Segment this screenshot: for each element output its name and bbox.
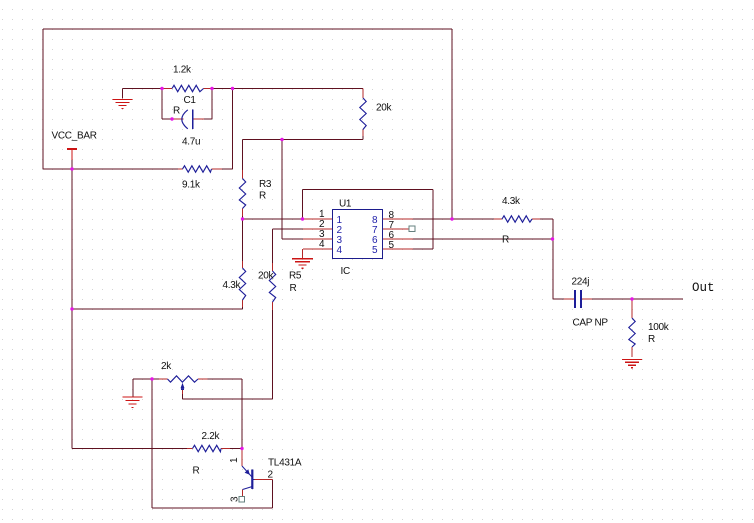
svg-text:20k: 20k bbox=[258, 271, 275, 282]
wire cap row left bbox=[553, 298, 564, 300]
IC U1 box bbox=[333, 210, 383, 259]
pin leads resistor 100k bbox=[631, 299, 633, 357]
pin leads resistor 2.2k bbox=[187, 448, 230, 450]
svg-text:VCC_BAR: VCC_BAR bbox=[52, 131, 97, 142]
svg-text:TL431A: TL431A bbox=[268, 458, 302, 469]
pin lead IC pin4 ground bbox=[302, 249, 304, 258]
resistor 20k top zigzag bbox=[360, 98, 366, 130]
junction pot left bbox=[150, 377, 153, 380]
svg-text:100k: 100k bbox=[648, 322, 670, 333]
svg-text:4.3k: 4.3k bbox=[502, 196, 521, 207]
svg-text:R5: R5 bbox=[289, 271, 302, 282]
pin leads capacitor 224j bbox=[564, 298, 592, 300]
capacitor C1 straight plate bbox=[192, 110, 194, 130]
capacitor 224j plates bbox=[575, 290, 581, 308]
svg-text:R: R bbox=[173, 106, 180, 117]
junction 2.2k right bbox=[240, 447, 243, 450]
wire pin2 net to R5 bbox=[273, 229, 304, 263]
ground 2k pot bbox=[123, 397, 143, 408]
svg-text:20k: 20k bbox=[376, 103, 393, 114]
junction C1 left top bbox=[160, 87, 163, 90]
wire cap row right to Out bbox=[592, 298, 683, 300]
pin leads IC left bbox=[303, 219, 333, 249]
wire pin1 net bbox=[243, 218, 304, 220]
ground top-left bbox=[113, 100, 133, 109]
resistor 1.2k zigzag bbox=[172, 85, 204, 91]
pin leads resistor 1.2k bbox=[162, 88, 212, 90]
wire 4.3k bottom row bbox=[72, 307, 243, 309]
no-connect square TL431 pin3 bbox=[239, 497, 245, 503]
wire 2.2k row bbox=[72, 448, 242, 450]
pin leads potentiometer 2k bbox=[159, 378, 208, 380]
wire vertical x232 up bbox=[232, 89, 234, 170]
resistor 4.3k vertical zigzag bbox=[239, 268, 245, 300]
wire 1.2k to 20k bbox=[212, 88, 363, 90]
potentiometer 2k zigzag bbox=[168, 376, 199, 382]
svg-text:5: 5 bbox=[372, 245, 378, 256]
svg-text:R: R bbox=[290, 283, 297, 294]
capacitor C1 curved plate bbox=[182, 110, 188, 129]
pin leads capacitor C1 bbox=[172, 118, 204, 120]
pin leads IC right bbox=[383, 219, 413, 249]
svg-text:4.3k: 4.3k bbox=[223, 280, 242, 291]
svg-text:3: 3 bbox=[230, 496, 241, 502]
pin leads resistor R3 bbox=[242, 170, 244, 216]
svg-text:R: R bbox=[193, 466, 200, 477]
wire R5 bottom to wiper row bbox=[272, 310, 274, 399]
svg-text:CAP NP: CAP NP bbox=[573, 318, 609, 329]
pin lead TL431 pin3 bbox=[242, 490, 244, 497]
junction pin8 vertical bbox=[450, 217, 453, 220]
svg-text:4: 4 bbox=[337, 245, 343, 256]
wire wiper row bbox=[183, 394, 273, 399]
pin leads resistor 4.3k vertical bbox=[242, 261, 244, 307]
wire pot ground stem bbox=[132, 379, 134, 397]
wire top-right vertical bbox=[451, 29, 453, 219]
junction x232 top bbox=[231, 87, 234, 90]
svg-text:U1: U1 bbox=[339, 199, 352, 210]
junction VCC bbox=[70, 167, 73, 170]
wire 4.3k to down corner bbox=[540, 219, 553, 299]
svg-text:IC: IC bbox=[341, 266, 350, 277]
svg-text:R: R bbox=[648, 334, 655, 345]
svg-text:R: R bbox=[502, 235, 509, 246]
wire pot left bbox=[133, 378, 159, 380]
wire TL431 k bottom loop bbox=[152, 379, 273, 508]
svg-text:2.2k: 2.2k bbox=[202, 431, 221, 442]
pin leads resistor 4.3k horizontal bbox=[494, 218, 540, 220]
wire pin3 net vertical bbox=[282, 140, 303, 240]
junction C1 lower bbox=[170, 117, 173, 120]
junction out 100k bbox=[630, 297, 633, 300]
svg-text:4.7u: 4.7u bbox=[182, 137, 200, 148]
junction R3 pin1 bbox=[241, 217, 244, 220]
transistor-style TL431 symbol bbox=[242, 466, 255, 490]
svg-text:1: 1 bbox=[229, 457, 240, 463]
wire R3 to 4.3kV bbox=[242, 216, 244, 261]
no-connect square pin7 bbox=[409, 226, 415, 232]
svg-text:4: 4 bbox=[319, 239, 325, 250]
svg-text:224j: 224j bbox=[572, 277, 590, 288]
svg-text:Out: Out bbox=[692, 281, 715, 295]
resistor R3 zigzag bbox=[239, 179, 245, 209]
junction feedback pin1 bbox=[301, 217, 304, 220]
pin leads resistor 20k top bbox=[362, 89, 364, 137]
resistor 4.3k horizontal zigzag bbox=[502, 216, 532, 222]
ground 100k bbox=[622, 360, 642, 368]
svg-text:R: R bbox=[259, 191, 266, 202]
wire pin8 to 4.3k bbox=[413, 218, 494, 220]
svg-text:5: 5 bbox=[389, 240, 395, 251]
resistor R5 20k zigzag bbox=[269, 271, 275, 302]
wire top horizontal bbox=[43, 28, 452, 30]
svg-text:1.2k: 1.2k bbox=[173, 65, 192, 76]
junction left column bbox=[70, 307, 73, 310]
power VCC_BAR symbol bbox=[67, 149, 77, 160]
wire pin5 feedback bbox=[303, 190, 434, 250]
junction 20k bottom row bbox=[280, 138, 283, 141]
resistor 2.2k zigzag bbox=[193, 445, 222, 451]
wire C1 branch bbox=[162, 89, 212, 120]
wire top-left vertical bbox=[42, 29, 44, 169]
wire 9.1k row left bbox=[43, 168, 178, 170]
wire pot right bbox=[208, 379, 243, 449]
junction pin6 bbox=[551, 237, 554, 240]
wire left column down bbox=[71, 169, 73, 449]
svg-text:R3: R3 bbox=[259, 179, 272, 190]
pin leads resistor 9.1k bbox=[178, 168, 222, 170]
svg-text:9.1k: 9.1k bbox=[182, 180, 201, 191]
wire pin6 net bbox=[413, 238, 553, 240]
svg-text:2k: 2k bbox=[161, 361, 172, 372]
resistor 100k zigzag bbox=[629, 318, 635, 347]
pin lead TL431 pin1 bbox=[241, 449, 243, 467]
wire VCC stem lower bbox=[71, 160, 73, 169]
TL431 arrow head bbox=[245, 469, 250, 475]
potentiometer 2k wiper arrow bbox=[181, 383, 185, 390]
ground IC pin4 bbox=[292, 259, 313, 268]
pin lead potentiometer wiper bbox=[182, 389, 184, 394]
resistor 9.1k zigzag bbox=[183, 166, 212, 172]
pin lead TL431 pin2 bbox=[255, 479, 273, 481]
svg-text:C1: C1 bbox=[184, 95, 197, 106]
pin leads resistor R5 20k bbox=[272, 263, 274, 310]
junction 1.2k right bbox=[210, 87, 213, 90]
wire 20k bottom to R3 column bbox=[243, 136, 364, 170]
svg-text:2: 2 bbox=[268, 470, 274, 481]
wire ground row bbox=[123, 89, 163, 99]
wire 9.1k row right bbox=[222, 168, 233, 170]
